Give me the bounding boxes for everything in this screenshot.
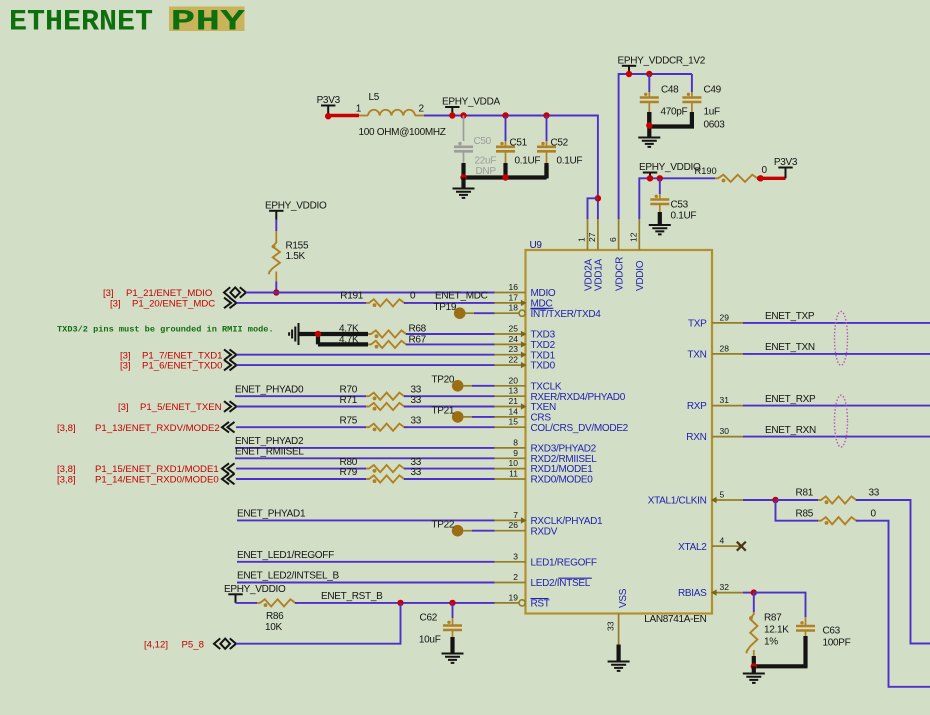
pin 24 TXD2 (495, 343, 526, 345)
svg-text:19: 19 (509, 592, 519, 602)
pin 28 TXN (712, 353, 743, 355)
svg-text:26: 26 (509, 520, 519, 530)
wire (235, 395, 366, 397)
svg-text:0: 0 (871, 508, 877, 519)
wire R190 to P3V3 (red) (757, 177, 786, 180)
svg-text:TXD0: TXD0 (531, 361, 556, 372)
wire R81 output (856, 500, 930, 644)
ground under C53 (649, 225, 671, 234)
wire (236, 468, 366, 470)
svg-text:P1_21/ENET_MDIO: P1_21/ENET_MDIO (126, 288, 212, 299)
wire (452, 603, 454, 618)
svg-text:C50: C50 (474, 136, 492, 147)
svg-text:ENET_LED1/REGOFF: ENET_LED1/REGOFF (237, 550, 334, 561)
svg-text:27: 27 (587, 232, 597, 242)
wire EPHY_VDDA rail (424, 116, 598, 220)
svg-text:ENET_RXN: ENET_RXN (765, 425, 816, 436)
port connector ENET_MDIO (bidirectional) (224, 287, 230, 298)
svg-text:RXD0/MODE0: RXD0/MODE0 (531, 475, 594, 486)
svg-text:LAN8741A-EN: LAN8741A-EN (644, 614, 706, 625)
svg-text:ENET_RMIISEL: ENET_RMIISEL (235, 447, 304, 458)
junction C62 branch (449, 600, 455, 606)
junction bus C50 (460, 174, 466, 180)
svg-text:5: 5 (720, 490, 725, 500)
svg-text:3: 3 (513, 551, 518, 561)
power flag P3V3 (right) (778, 167, 792, 169)
wire (236, 478, 366, 480)
svg-text:ENET_PHYAD0: ENET_PHYAD0 (235, 384, 304, 395)
svg-text:ENET_PHYAD1: ENET_PHYAD1 (237, 509, 306, 520)
pin 15 COL/CRS_DV/MODE2 (495, 426, 526, 428)
wire P3V3 to L5 pin 1 (red) (328, 114, 359, 117)
svg-text:LED1/REGOFF: LED1/REGOFF (531, 557, 597, 568)
wire (743, 592, 754, 594)
svg-text:TXCLK: TXCLK (531, 381, 562, 392)
svg-text:P1_5/ENET_TXEN: P1_5/ENET_TXEN (140, 402, 222, 413)
wire (235, 447, 495, 449)
svg-text:25: 25 (509, 324, 519, 334)
svg-text:31: 31 (720, 395, 730, 405)
svg-text:8: 8 (513, 437, 518, 447)
pin 25 TXD3 (495, 333, 526, 335)
ground under R87 (743, 674, 765, 683)
junction bus C48 (646, 122, 652, 128)
svg-text:11: 11 (509, 469, 518, 479)
svg-text:R190: R190 (695, 166, 717, 176)
svg-text:[3]: [3] (120, 361, 131, 372)
svg-text:TXN: TXN (687, 350, 706, 361)
svg-text:C49: C49 (704, 85, 722, 96)
junction at P3V3 (325, 113, 331, 119)
wire (743, 405, 930, 407)
resistor R68 (368, 330, 409, 337)
wire (236, 602, 258, 604)
svg-text:R81: R81 (796, 488, 814, 499)
svg-text:RXD1/MODE1: RXD1/MODE1 (531, 464, 594, 475)
svg-text:0: 0 (410, 291, 416, 302)
svg-text:14: 14 (509, 406, 519, 416)
svg-text:[3]: [3] (118, 402, 129, 413)
svg-text:RST: RST (531, 599, 550, 610)
wire (404, 426, 495, 428)
svg-text:29: 29 (720, 312, 730, 322)
power flag EPHY_VDDA (445, 106, 459, 108)
junction XTAL1 (772, 497, 778, 503)
port connector ENET_TXD0 (224, 360, 237, 371)
wire (237, 519, 495, 521)
wire ground bus under C48/C49 (647, 112, 651, 137)
wire (237, 364, 495, 366)
wire (743, 436, 930, 438)
wire VSS to ground (616, 645, 620, 662)
junction TXD bus (315, 331, 321, 337)
svg-text:RXD3/PHYAD2: RXD3/PHYAD2 (531, 444, 597, 455)
wire (404, 406, 495, 408)
differential pair marker TX (835, 311, 848, 365)
svg-text:[4,12]: [4,12] (144, 639, 168, 650)
pin 11 RXD0/MODE0 (495, 478, 526, 480)
svg-text:R70: R70 (340, 384, 358, 395)
wire (237, 406, 367, 408)
svg-text:100 OHM@100MHZ: 100 OHM@100MHZ (359, 127, 446, 138)
svg-text:4.7K: 4.7K (339, 334, 359, 345)
svg-text:4.7K: 4.7K (339, 323, 359, 334)
pin 30 RXN (712, 436, 743, 438)
svg-text:RXP: RXP (687, 401, 707, 412)
svg-text:16: 16 (509, 282, 519, 292)
wire (404, 395, 495, 397)
svg-text:9: 9 (513, 448, 518, 458)
wire (753, 593, 755, 612)
svg-text:22: 22 (509, 355, 519, 365)
svg-text:XTAL2: XTAL2 (678, 542, 707, 553)
pin 17 MDC (495, 302, 526, 304)
svg-text:P3V3: P3V3 (774, 157, 798, 168)
wire (236, 426, 366, 428)
svg-text:COL/CRS_DV/MODE2: COL/CRS_DV/MODE2 (531, 423, 629, 434)
capacitor C49 (691, 74, 693, 92)
port connector ENET_TXD1 (224, 349, 237, 360)
port connector ENET_RXD1 (222, 463, 235, 474)
test point TP22 (452, 525, 464, 537)
power flag EPHY_VDDIO (left) (269, 210, 283, 212)
svg-text:[3]: [3] (103, 288, 114, 299)
pin 12 VDDIO (638, 219, 640, 250)
wire (275, 282, 277, 293)
pin 26 RXDV (495, 530, 526, 532)
pin 9 RXD2/RMIISEL (495, 457, 526, 459)
port connector P5_8 (bidirectional) (214, 638, 220, 649)
svg-text:10uF: 10uF (419, 635, 441, 646)
svg-text:R86: R86 (266, 611, 284, 622)
wire (743, 499, 776, 501)
wire ground bus under C50-C52 (462, 166, 547, 179)
pin 19 RST (495, 602, 520, 604)
svg-text:VDD1A: VDD1A (594, 259, 605, 291)
wire (237, 582, 495, 584)
svg-text:C53: C53 (671, 200, 689, 211)
svg-text:TP19: TP19 (433, 302, 456, 313)
svg-text:7: 7 (513, 510, 518, 520)
svg-text:TXD3: TXD3 (531, 330, 556, 341)
svg-text:EPHY_VDDCR_1V2: EPHY_VDDCR_1V2 (618, 55, 706, 66)
svg-text:18: 18 (509, 303, 519, 313)
title highlight (169, 7, 245, 32)
svg-text:33: 33 (411, 457, 422, 468)
svg-text:1: 1 (356, 104, 362, 115)
power flag EPHY_VDDIO (top) (643, 172, 657, 174)
pin 10 RXD1/MODE1 (495, 468, 526, 470)
svg-text:EPHY_VDDIO: EPHY_VDDIO (265, 200, 327, 211)
junction VDD rail split (595, 195, 601, 201)
junction bus C51 (502, 174, 508, 180)
junction C50 branch (460, 112, 466, 118)
svg-text:33: 33 (869, 488, 880, 499)
svg-text:RXN: RXN (686, 432, 706, 443)
port connector ENET_RXD0 (222, 474, 235, 485)
svg-text:R68: R68 (409, 323, 427, 334)
svg-text:0.1UF: 0.1UF (515, 156, 541, 167)
svg-text:[3]: [3] (120, 350, 131, 361)
ground for TXD3/TXD2 (289, 323, 298, 345)
differential pair marker RX (835, 395, 848, 447)
svg-text:EPHY_VDDIO: EPHY_VDDIO (224, 584, 286, 595)
svg-text:P1_13/ENET_RXDV/MODE2: P1_13/ENET_RXDV/MODE2 (95, 423, 220, 434)
svg-text:VDDIO: VDDIO (635, 260, 646, 291)
svg-text:1: 1 (577, 237, 587, 242)
wire (235, 457, 495, 459)
wire (275, 220, 277, 232)
svg-text:ENET_TXP: ENET_TXP (765, 311, 815, 322)
svg-text:TP20: TP20 (431, 375, 454, 386)
svg-text:23: 23 (509, 344, 519, 354)
ground under C48 (638, 138, 660, 147)
svg-text:R155: R155 (286, 241, 309, 252)
svg-text:P1_15/ENET_RXD1/MODE1: P1_15/ENET_RXD1/MODE1 (95, 464, 219, 475)
pin 20 TXCLK (495, 385, 526, 387)
svg-text:4: 4 (720, 536, 725, 546)
pin 4 XTAL2 (712, 545, 743, 547)
svg-text:33: 33 (411, 467, 422, 478)
resistor R86 (257, 599, 298, 606)
svg-text:2: 2 (419, 104, 425, 115)
svg-text:ENET_LED2/INTSEL_B: ENET_LED2/INTSEL_B (237, 571, 339, 582)
wire EPHY_VDDIO rail to pin 12 (639, 178, 715, 219)
svg-text:RXDV: RXDV (531, 526, 558, 537)
svg-text:TXEN: TXEN (531, 402, 557, 413)
wire TXD3 ground bus (299, 334, 368, 344)
port connector ENET_TXEN (224, 401, 237, 412)
wire EPHY_VDDCR_1V2 rail to pin 6 (619, 74, 692, 219)
svg-text:ENET_RST_B: ENET_RST_B (321, 591, 383, 602)
pin 21 TXEN (495, 406, 526, 408)
junction C48 branch (646, 71, 652, 77)
svg-text:C52: C52 (551, 138, 569, 149)
capacitor C48 (648, 74, 650, 92)
svg-text:17: 17 (509, 292, 519, 302)
svg-text:0: 0 (762, 165, 768, 176)
svg-text:TXD1: TXD1 (531, 350, 556, 361)
wire (776, 499, 819, 501)
wire (404, 468, 495, 470)
svg-text:P1_6/ENET_TXD0: P1_6/ENET_TXD0 (142, 361, 223, 372)
op-amp U9 LAN8741A-EN body (526, 250, 713, 614)
svg-text:RBIAS: RBIAS (678, 588, 707, 599)
power flag P3V3 (left) (321, 105, 335, 107)
svg-text:EPHY_VDDA: EPHY_VDDA (442, 97, 501, 108)
junction red wire (757, 175, 763, 181)
svg-text:10: 10 (509, 458, 519, 468)
svg-text:C62: C62 (420, 613, 438, 624)
resistor R155 (275, 231, 277, 241)
port connector ENET_MDC (224, 298, 237, 309)
pin 13 RXER/RXD4/PHYAD0 (495, 395, 526, 397)
svg-text:0.1UF: 0.1UF (671, 211, 697, 222)
pin 14 CRS (495, 416, 526, 418)
pin 6 VDDCR (618, 219, 620, 250)
junction P5_8 branch (397, 600, 403, 606)
pin 18 INT/TXER/TXD4 (495, 312, 520, 314)
svg-text:2: 2 (513, 572, 518, 582)
wire (743, 353, 930, 355)
svg-text:ENET_TXN: ENET_TXN (765, 342, 815, 353)
wire XTAL1 to R85 (776, 500, 819, 521)
svg-text:R191: R191 (340, 291, 363, 302)
svg-text:33: 33 (411, 384, 422, 395)
pin 7 RXCLK/PHYAD1 (495, 519, 526, 521)
resistor R67 (368, 341, 409, 348)
junction C52 branch (543, 112, 549, 118)
test point TP21 (452, 411, 464, 423)
svg-text:EPHY_VDDIO: EPHY_VDDIO (639, 162, 701, 173)
wire (246, 292, 495, 294)
svg-text:C63: C63 (823, 626, 841, 637)
svg-text:24: 24 (509, 334, 519, 344)
svg-text:33: 33 (411, 415, 422, 426)
svg-text:12: 12 (629, 232, 639, 242)
wire R85 output (856, 521, 930, 687)
pin 31 RXP (712, 405, 743, 407)
svg-text:[3,8]: [3,8] (57, 464, 76, 475)
svg-text:10K: 10K (265, 622, 283, 633)
pin 3 LED1/REGOFF (495, 561, 526, 563)
svg-text:R80: R80 (340, 457, 358, 468)
svg-text:0.1UF: 0.1UF (557, 156, 583, 167)
junction C53 branch (657, 175, 663, 181)
test point TP19 (454, 307, 466, 319)
pin 16 MDIO (495, 292, 526, 294)
svg-text:DNP: DNP (476, 166, 497, 177)
svg-text:ETHERNET: ETHERNET (9, 6, 153, 40)
svg-text:1%: 1% (764, 637, 778, 648)
svg-text:ENET_MDC: ENET_MDC (435, 291, 488, 302)
svg-text:0603: 0603 (704, 120, 726, 131)
svg-text:470pF: 470pF (661, 107, 688, 118)
svg-text:[3]: [3] (110, 299, 121, 310)
wire (237, 302, 367, 304)
wire (295, 602, 495, 604)
pin 32 RBIAS (712, 592, 743, 594)
junction RBIAS (751, 589, 757, 595)
svg-text:R79: R79 (340, 467, 358, 478)
svg-text:6: 6 (608, 237, 618, 242)
svg-text:TP21: TP21 (431, 406, 454, 417)
svg-text:P1_14/ENET_RXD0/MODE0: P1_14/ENET_RXD0/MODE0 (95, 475, 219, 486)
svg-text:C51: C51 (510, 138, 528, 149)
svg-text:R87: R87 (764, 613, 782, 624)
junction VDDCR stem (626, 71, 632, 77)
wire (237, 354, 495, 356)
svg-text:VDDCR: VDDCR (614, 257, 625, 291)
svg-text:21: 21 (509, 396, 519, 406)
pin 33 VSS (618, 614, 620, 645)
svg-text:13: 13 (509, 386, 519, 396)
wire (743, 322, 930, 324)
svg-text:[3,8]: [3,8] (57, 475, 76, 486)
svg-text:P1_7/ENET_TXD1: P1_7/ENET_TXD1 (142, 350, 223, 361)
wire (404, 302, 495, 304)
svg-text:MDIO: MDIO (531, 288, 556, 299)
svg-text:LED2/INTSEL: LED2/INTSEL (531, 578, 591, 589)
svg-text:1.5K: 1.5K (286, 251, 306, 262)
svg-text:33: 33 (606, 621, 616, 631)
pin 22 TXD0 (495, 364, 526, 366)
wire P5_8 (236, 603, 401, 644)
junction R155/MDIO (273, 289, 279, 295)
svg-text:100PF: 100PF (823, 638, 851, 649)
svg-text:L5: L5 (369, 92, 380, 103)
svg-text:U9: U9 (530, 240, 543, 251)
svg-text:INT/TXER/TXD4: INT/TXER/TXD4 (531, 309, 602, 320)
svg-text:28: 28 (720, 343, 730, 353)
svg-text:33: 33 (411, 395, 422, 406)
ground under C62 (442, 654, 464, 663)
wire to pin 1 (588, 198, 598, 219)
svg-text:32: 32 (720, 582, 730, 592)
svg-text:C48: C48 (661, 85, 679, 96)
svg-text:P1_20/ENET_MDC: P1_20/ENET_MDC (132, 299, 215, 310)
svg-text:TP22: TP22 (431, 520, 454, 531)
svg-text:ENET_PHYAD2: ENET_PHYAD2 (235, 436, 304, 447)
junction VDDIO stem (647, 175, 653, 181)
svg-text:P5_8: P5_8 (182, 639, 204, 650)
pin 23 TXD1 (495, 354, 526, 356)
svg-text:TXD3/2 pins must be grounded i: TXD3/2 pins must be grounded in RMII mod… (57, 325, 274, 335)
junction C51 branch (502, 112, 508, 118)
svg-text:20: 20 (509, 375, 519, 385)
no-connect XTAL2 (712, 545, 737, 547)
pin 1 VDD2A (587, 219, 589, 250)
svg-text:[3,8]: [3,8] (57, 423, 76, 434)
pin 27 VDD1A (597, 219, 599, 250)
svg-text:1uF: 1uF (704, 107, 721, 118)
capacitor C53 (659, 178, 661, 194)
wire (404, 478, 495, 480)
svg-text:VDD2A: VDD2A (583, 259, 594, 291)
svg-text:R85: R85 (796, 508, 814, 519)
svg-text:R75: R75 (340, 415, 358, 426)
svg-text:12.1K: 12.1K (764, 625, 789, 636)
pin 29 TXP (712, 322, 743, 324)
svg-text:XTAL1/CLKIN: XTAL1/CLKIN (648, 496, 707, 507)
wire ground stem (461, 178, 465, 189)
svg-text:R71: R71 (340, 395, 358, 406)
wire (406, 333, 495, 335)
svg-text:TXP: TXP (688, 319, 707, 330)
svg-text:PHY: PHY (171, 5, 246, 39)
svg-text:VSS: VSS (618, 588, 629, 608)
pin 2 LED2/INTSEL (495, 582, 526, 584)
test point TP20 (452, 380, 464, 392)
junction EPHY_VDDA stem (449, 112, 455, 118)
ground under VSS (608, 662, 630, 671)
junction ground bus R87/C63 (751, 663, 757, 669)
wire ground stem R87 (752, 666, 756, 673)
svg-text:ENET_RXP: ENET_RXP (765, 394, 816, 405)
wire (237, 561, 495, 563)
power flag EPHY_VDDIO (bottom) (228, 593, 242, 595)
power flag EPHY_VDDCR_1V2 (622, 65, 636, 67)
pin 5 XTAL1/CLKIN (712, 499, 743, 501)
port connector ENET_RXDV (222, 422, 235, 433)
svg-text:15: 15 (509, 417, 519, 427)
svg-text:30: 30 (720, 426, 730, 436)
svg-text:P3V3: P3V3 (317, 95, 341, 106)
pin 8 RXD3/PHYAD2 (495, 447, 526, 449)
wire (406, 343, 495, 345)
capacitor C63 (754, 593, 806, 617)
ground under C50 bus (453, 189, 475, 198)
